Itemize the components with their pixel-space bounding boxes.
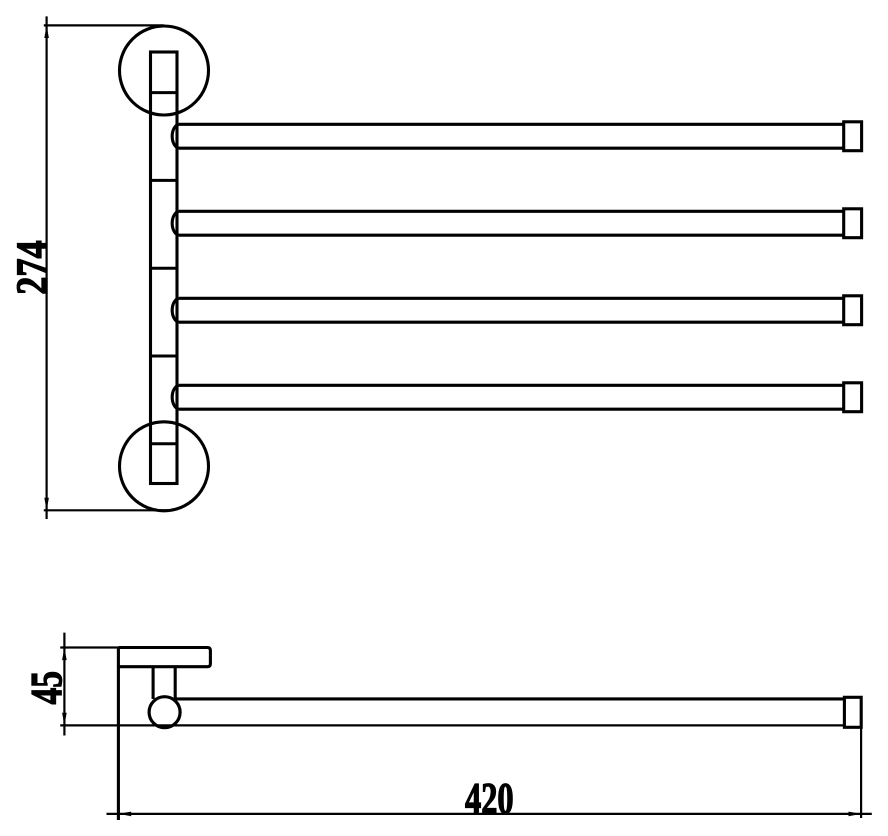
svg-text:274: 274	[8, 240, 57, 295]
svg-text:45: 45	[22, 671, 71, 705]
svg-text:420: 420	[465, 774, 514, 823]
